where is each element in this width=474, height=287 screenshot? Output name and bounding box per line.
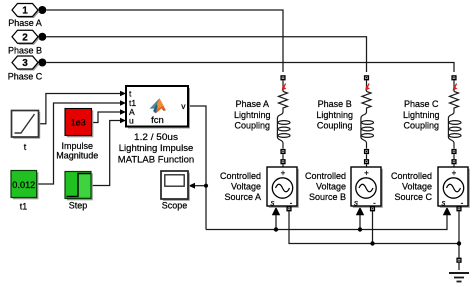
svg-text:t1: t1 bbox=[20, 202, 28, 212]
svg-text:Lightning Impulse: Lightning Impulse bbox=[119, 143, 193, 154]
svg-text:+: + bbox=[364, 168, 369, 177]
svg-text:Lightning: Lightning bbox=[234, 110, 271, 120]
svg-text:0.012: 0.012 bbox=[12, 180, 35, 191]
svg-text:t: t bbox=[24, 142, 27, 152]
svg-text:3: 3 bbox=[22, 58, 28, 69]
svg-text:Phase C: Phase C bbox=[404, 99, 439, 109]
svg-text:Step: Step bbox=[69, 200, 88, 210]
svg-text:Scope: Scope bbox=[162, 200, 188, 210]
svg-text:Source B: Source B bbox=[309, 192, 346, 202]
svg-text:1e3: 1e3 bbox=[71, 117, 86, 127]
svg-text:Controlled: Controlled bbox=[220, 171, 261, 181]
svg-text:Coupling: Coupling bbox=[404, 121, 440, 131]
svg-text:s: s bbox=[354, 199, 358, 208]
svg-text:Phase B: Phase B bbox=[318, 99, 352, 109]
svg-text:Controlled: Controlled bbox=[391, 171, 432, 181]
svg-text:Phase C: Phase C bbox=[8, 72, 43, 82]
svg-text:u: u bbox=[129, 116, 134, 126]
svg-text:Controlled: Controlled bbox=[305, 171, 346, 181]
svg-text:s: s bbox=[271, 199, 275, 208]
svg-text:Source A: Source A bbox=[224, 192, 261, 202]
svg-text:Voltage: Voltage bbox=[231, 181, 261, 191]
svg-text:Voltage: Voltage bbox=[316, 181, 346, 191]
svg-text:MATLAB Function: MATLAB Function bbox=[118, 155, 194, 166]
svg-text:1.2 / 50us: 1.2 / 50us bbox=[134, 132, 178, 143]
svg-text:1: 1 bbox=[22, 6, 28, 17]
svg-text:Phase A: Phase A bbox=[8, 18, 42, 28]
svg-text:s: s bbox=[442, 199, 446, 208]
svg-text:+: + bbox=[452, 168, 457, 177]
svg-text:Phase A: Phase A bbox=[236, 99, 270, 109]
svg-text:+: + bbox=[281, 168, 286, 177]
svg-text:fcn: fcn bbox=[151, 115, 164, 126]
svg-text:Coupling: Coupling bbox=[235, 121, 271, 131]
svg-text:Lightning: Lightning bbox=[403, 110, 440, 120]
svg-text:Lightning: Lightning bbox=[316, 110, 353, 120]
svg-text:Magnitude: Magnitude bbox=[56, 150, 98, 160]
svg-text:Coupling: Coupling bbox=[317, 121, 353, 131]
svg-text:Voltage: Voltage bbox=[402, 181, 432, 191]
svg-text:2: 2 bbox=[22, 32, 28, 43]
svg-text:Source C: Source C bbox=[394, 192, 432, 202]
svg-text:Phase B: Phase B bbox=[8, 46, 42, 56]
